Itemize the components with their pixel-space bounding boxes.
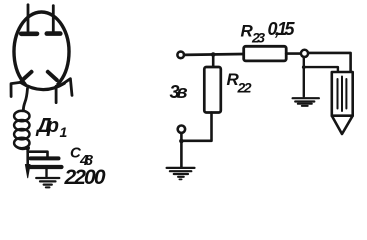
svg-text:2200: 2200	[64, 166, 106, 189]
svg-text:22: 22	[237, 80, 252, 96]
svg-text:1: 1	[60, 124, 68, 140]
svg-text:23: 23	[251, 30, 265, 46]
svg-text:3в: 3в	[170, 82, 188, 102]
svg-text:0,15: 0,15	[268, 19, 296, 39]
svg-text:Др: Др	[35, 115, 59, 137]
